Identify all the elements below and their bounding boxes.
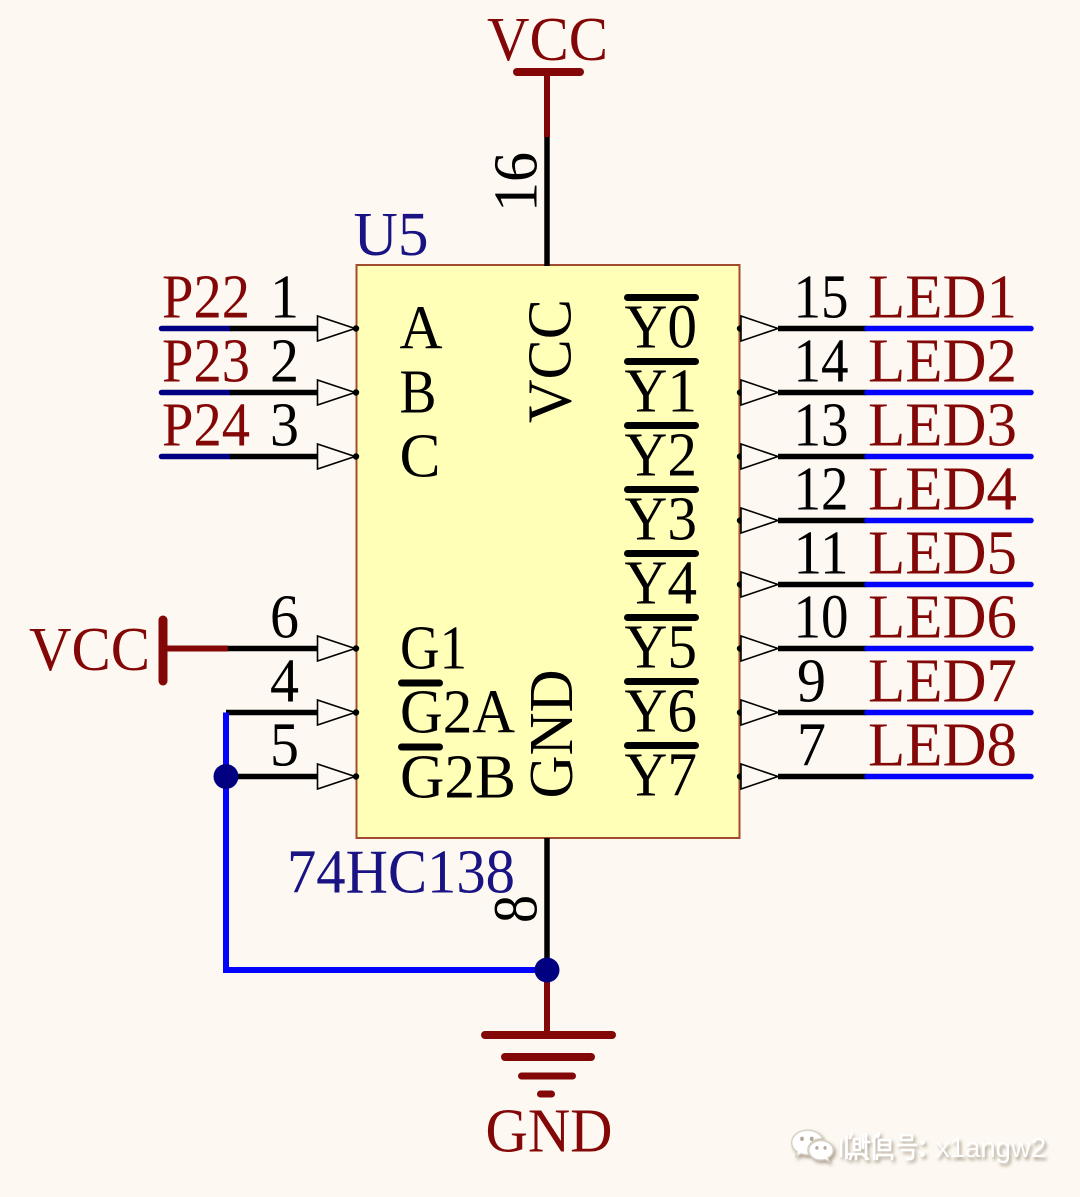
svg-text:4: 4	[270, 648, 299, 716]
svg-text:VCC: VCC	[517, 299, 585, 423]
svg-text:LED1: LED1	[868, 264, 1017, 332]
svg-text:12: 12	[794, 456, 849, 524]
svg-text:Y5: Y5	[625, 614, 698, 682]
svg-text:5: 5	[270, 712, 299, 780]
svg-text:LED7: LED7	[868, 648, 1017, 716]
svg-text:G1: G1	[400, 615, 467, 683]
svg-text:LED5: LED5	[868, 520, 1017, 588]
svg-text:LED8: LED8	[868, 712, 1017, 780]
svg-text:LED6: LED6	[868, 584, 1017, 652]
svg-text:Y1: Y1	[625, 358, 698, 426]
svg-text:2: 2	[270, 328, 299, 396]
svg-text:G2A: G2A	[400, 679, 515, 747]
svg-text:Y7: Y7	[625, 742, 698, 810]
svg-text:Y0: Y0	[625, 294, 698, 362]
svg-text:1: 1	[270, 264, 299, 332]
svg-text:Y2: Y2	[625, 422, 698, 490]
svg-text:7: 7	[797, 712, 826, 780]
svg-text:15: 15	[794, 264, 849, 332]
svg-text:GND: GND	[518, 670, 586, 799]
svg-text:VCC: VCC	[487, 6, 608, 74]
svg-text:LED2: LED2	[868, 328, 1017, 396]
svg-text:3: 3	[270, 392, 299, 460]
svg-text:P23: P23	[162, 328, 250, 396]
svg-text:6: 6	[270, 584, 299, 652]
svg-text:13: 13	[794, 392, 849, 460]
svg-text:C: C	[400, 423, 441, 491]
svg-text:11: 11	[794, 520, 849, 588]
svg-text:VCC: VCC	[29, 616, 150, 684]
svg-text:LED3: LED3	[868, 392, 1017, 460]
svg-text:10: 10	[794, 584, 849, 652]
svg-text:B: B	[400, 359, 437, 427]
svg-text:LED4: LED4	[868, 456, 1017, 524]
svg-text:G2B: G2B	[400, 744, 516, 812]
svg-text:GND: GND	[486, 1098, 613, 1166]
svg-text:Y3: Y3	[625, 486, 698, 554]
svg-text:Y4: Y4	[625, 550, 698, 618]
svg-text:16: 16	[483, 152, 551, 212]
svg-text:P22: P22	[162, 264, 250, 332]
svg-text:14: 14	[794, 328, 849, 396]
svg-text:Y6: Y6	[625, 678, 698, 746]
svg-text:9: 9	[797, 648, 826, 716]
svg-text:U5: U5	[354, 201, 429, 269]
svg-text:74HC138: 74HC138	[287, 839, 515, 907]
svg-text:P24: P24	[162, 392, 250, 460]
svg-text:A: A	[400, 295, 443, 363]
